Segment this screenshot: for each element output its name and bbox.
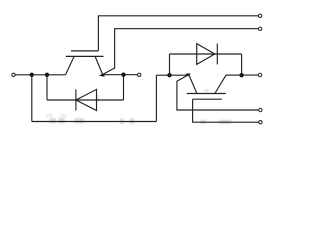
node J1 (C1 rail / bottom bus junction) <box>30 73 34 77</box>
wire: D2 run <box>170 53 242 55</box>
wire: D2 cathode branch down <box>241 54 243 75</box>
transistor Q2 body bar <box>187 93 226 95</box>
terminal C2 (right) <box>258 73 261 76</box>
node J5 (C2 rail junction) <box>239 73 243 77</box>
wire: bottom bus up to right block mid node <box>155 75 157 121</box>
transistor Q2 emitter arrow <box>185 73 190 76</box>
wire: J5 to terminal C2 <box>242 74 259 76</box>
terminal G2 (bottom right lower) <box>259 121 262 124</box>
terminal G1 (top right outer) <box>258 14 261 17</box>
diode D2 (triangle, points right) <box>197 44 215 65</box>
node J2 (C1 rail / D1 cathode junction) <box>45 73 49 77</box>
transistor Q1 body bar <box>66 55 104 57</box>
transistor Q1 emitter lead <box>95 56 103 74</box>
transistor Q1 gate plate <box>71 50 98 52</box>
wire: J1 down <box>31 75 33 122</box>
terminal E2aux (bottom right upper) <box>259 108 262 111</box>
node J4 (mid rail / D2 anode junction) <box>167 73 171 77</box>
transistor Q1 collector lead <box>66 56 75 74</box>
wire: bottom bus <box>32 121 157 123</box>
wire: D1 anode-cathode run <box>47 99 124 101</box>
wire: Q2 collector to J5 <box>226 74 242 76</box>
node J3 (emitter rail / D1 anode junction) <box>121 73 125 77</box>
diode D1 (cathode bar) <box>75 89 77 110</box>
transistor Q2 emitter lead <box>189 75 197 94</box>
wire: left rail C1 to Q1 collector <box>15 74 65 76</box>
diode D1 (triangle, points left) <box>76 89 97 110</box>
wire: right block mid rail <box>156 74 188 76</box>
wire: D2 anode branch up <box>169 54 171 75</box>
diode D2 (cathode bar) <box>216 44 218 65</box>
wire: Q2 gate lead down and right to G2 <box>193 99 259 122</box>
wire: Q1 gate lead up and right to G1 <box>98 16 258 51</box>
wire: Q1 aux emitter diagonal, up and right to E1aux <box>103 29 259 75</box>
wire: D1 loop up to emitter rail <box>123 75 125 100</box>
terminal C1 (left) <box>12 73 15 76</box>
terminal E1aux (top right inner) <box>258 27 261 30</box>
wire: Q1 emitter rail to E1 <box>103 74 138 76</box>
transistor Q2 gate plate <box>193 98 222 100</box>
terminal E1 (middle) <box>138 73 141 76</box>
transistor Q1 emitter arrow <box>99 73 105 77</box>
wire: Q2 aux emitter diagonal down to E2aux <box>177 75 259 110</box>
transistor Q2 collector lead <box>215 75 226 93</box>
wire: J2 down to D1 <box>46 75 48 100</box>
